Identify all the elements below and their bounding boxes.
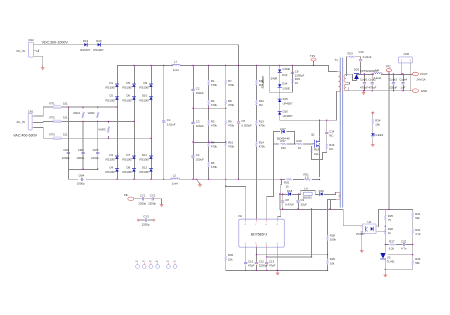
svg-text:240R: 240R bbox=[271, 76, 278, 80]
junction (238.5,179.3) bbox=[238, 179, 239, 180]
resistor R32 bbox=[412, 228, 421, 236]
junction (282.7,194) bbox=[282, 193, 283, 194]
fuse F3 bbox=[50, 133, 68, 140]
svg-text:L4: L4 bbox=[305, 187, 309, 191]
junction (277.8,270.4) bbox=[277, 270, 278, 271]
LED1 bbox=[371, 133, 383, 137]
svg-text:VDC:300-1000V: VDC:300-1000V bbox=[42, 41, 69, 45]
svg-text:PE: PE bbox=[124, 193, 128, 197]
resistor R33 bbox=[412, 257, 421, 266]
diode bridge leg 1 wire bbox=[117, 66, 119, 180]
junction (327.5,254.7) bbox=[327, 254, 328, 255]
ferrite bead L4 bbox=[301, 187, 316, 200]
junction (256.4,254.7) bbox=[256, 254, 257, 255]
junction (134,179.3) bbox=[133, 179, 134, 180]
shunt reg U3 TL431 bbox=[380, 253, 395, 264]
junction (108.4,121.4) bbox=[108, 121, 109, 122]
svg-text:10: 10 bbox=[298, 146, 302, 150]
transistor Q1 bbox=[311, 133, 320, 151]
resistor R18 bbox=[311, 148, 320, 156]
svg-text:22uF: 22uF bbox=[301, 202, 308, 206]
svg-text:D20: D20 bbox=[96, 39, 102, 43]
junction (326.7,120.2) bbox=[326, 120, 327, 121]
junction (412.7,254.7) bbox=[412, 254, 413, 255]
svg-text:RS1007: RS1007 bbox=[123, 158, 134, 162]
svg-text:C4: C4 bbox=[196, 153, 200, 157]
resistor R3 bbox=[208, 120, 218, 128]
svg-text:TP2: TP2 bbox=[386, 65, 392, 69]
wire HV bus bbox=[118, 66, 337, 72]
capacitor C4 bbox=[192, 153, 204, 161]
gate drive box with diode D17 bbox=[274, 127, 295, 144]
junction (385.3,269.3) bbox=[385, 269, 386, 270]
wire opto emitter to ground bbox=[361, 232, 364, 249]
junction (83.1,121.4) bbox=[82, 121, 83, 122]
resistor R31 bbox=[412, 212, 421, 220]
diode bridge leg 2 wire bbox=[134, 66, 136, 180]
svg-text:470k: 470k bbox=[228, 145, 235, 149]
wire analog ground rail bbox=[226, 269, 328, 271]
resistor R4 bbox=[208, 141, 218, 149]
junction (225.7,108.3) bbox=[225, 108, 226, 109]
node VOUT bbox=[412, 72, 427, 81]
svg-text:24V/1A: 24V/1A bbox=[417, 77, 426, 81]
wire clamp to drain bbox=[280, 92, 337, 153]
varistor VAR3 bbox=[98, 127, 110, 133]
junction (208.6,65.5) bbox=[208, 65, 209, 66]
svg-text:RS1007: RS1007 bbox=[140, 98, 151, 102]
svg-text:Cout3: Cout3 bbox=[389, 78, 397, 82]
svg-text:R16: R16 bbox=[297, 139, 303, 143]
wire CY row1 bbox=[134, 199, 162, 204]
svg-text:GND: GND bbox=[421, 89, 427, 93]
svg-text:C8: C8 bbox=[285, 198, 289, 202]
junction (372.2,90.7) bbox=[372, 90, 373, 91]
svg-text:RS1007: RS1007 bbox=[123, 86, 134, 90]
svg-text:1000p: 1000p bbox=[77, 182, 85, 186]
capacitor C32 bbox=[401, 240, 407, 251]
svg-text:1.5KE: 1.5KE bbox=[282, 67, 290, 71]
junction (292.5,65.5) bbox=[292, 65, 293, 66]
svg-text:RS1007: RS1007 bbox=[140, 86, 151, 90]
capacitor CY1 bbox=[138, 193, 146, 205]
svg-text:D10: D10 bbox=[142, 94, 148, 98]
svg-text:RS1007: RS1007 bbox=[106, 170, 117, 174]
T1 secondary winding 1 bbox=[344, 74, 348, 82]
svg-text:RS1007: RS1007 bbox=[80, 48, 91, 52]
svg-text:D6: D6 bbox=[127, 94, 131, 98]
junction (97.7,107.1) bbox=[97, 106, 98, 107]
svg-text:4.7n: 4.7n bbox=[401, 247, 407, 251]
svg-text:C9: C9 bbox=[301, 198, 305, 202]
junction (83.1,169) bbox=[82, 168, 83, 169]
junction (412.7,244.5) bbox=[412, 244, 413, 245]
resistor R9 bbox=[225, 120, 235, 128]
junction (151,138.3) bbox=[150, 138, 151, 139]
wire C5 column bbox=[238, 66, 240, 180]
resistor R27 bbox=[389, 240, 396, 251]
varistor VAR1 bbox=[73, 111, 85, 118]
diode D7 bbox=[123, 153, 136, 162]
svg-text:Q1: Q1 bbox=[311, 133, 315, 137]
svg-text:R23: R23 bbox=[348, 51, 354, 55]
svg-text:1000p: 1000p bbox=[77, 156, 85, 160]
svg-text:470uF: 470uF bbox=[360, 86, 368, 90]
junction (97.7,169) bbox=[97, 168, 98, 169]
junction (225.7,142) bbox=[225, 141, 226, 142]
junction (134,65.5) bbox=[133, 65, 134, 66]
svg-text:47pF: 47pF bbox=[248, 264, 255, 268]
svg-text:RS1007: RS1007 bbox=[140, 158, 151, 162]
diode D2 bbox=[106, 94, 119, 103]
svg-text:CY1: CY1 bbox=[140, 193, 146, 197]
junction (279.7,194) bbox=[279, 193, 280, 194]
svg-text:150: 150 bbox=[281, 146, 286, 150]
fuse F1 bbox=[50, 101, 68, 108]
junction (193,65.5) bbox=[192, 65, 193, 66]
diode D19b bbox=[319, 189, 325, 196]
junction (196,179.3) bbox=[195, 179, 196, 180]
junction (319.5,120.2) bbox=[319, 120, 320, 121]
junction (225.7,186) bbox=[225, 185, 226, 186]
svg-text:10: 10 bbox=[295, 81, 299, 85]
svg-text:62k: 62k bbox=[415, 216, 420, 220]
junction (363.6,90.7) bbox=[363, 90, 364, 91]
junction (385.3,226.3) bbox=[385, 226, 386, 227]
capacitor CM3 bbox=[91, 148, 99, 160]
connector CN6 bbox=[398, 52, 412, 90]
svg-text:VAC:400-690V: VAC:400-690V bbox=[13, 134, 37, 138]
svg-text:BD7682FJ: BD7682FJ bbox=[251, 233, 267, 237]
svg-text:D7: D7 bbox=[127, 153, 131, 157]
svg-text:C2: C2 bbox=[196, 86, 200, 90]
junction (266.7,256.9) bbox=[266, 256, 267, 257]
svg-text:6.2k: 6.2k bbox=[389, 247, 395, 251]
svg-text:RT3: RT3 bbox=[50, 133, 56, 137]
junction (134,121.4) bbox=[133, 121, 134, 122]
svg-text:10k: 10k bbox=[314, 152, 319, 156]
svg-text:5J1: 5J1 bbox=[63, 101, 68, 105]
inductor L3 bbox=[372, 68, 383, 80]
diode D6 bbox=[123, 94, 136, 103]
wire balance resistor column A bbox=[208, 66, 210, 180]
svg-text:470k: 470k bbox=[228, 124, 235, 128]
capacitor CM1 bbox=[62, 148, 70, 160]
svg-text:C5: C5 bbox=[242, 119, 246, 123]
capacitor C3 bbox=[192, 119, 204, 127]
resistor R5 bbox=[208, 161, 218, 169]
diode D15 bbox=[278, 97, 293, 105]
svg-text:1.5KE: 1.5KE bbox=[282, 87, 290, 91]
diode D3 bbox=[106, 153, 119, 162]
svg-text:1mH: 1mH bbox=[173, 68, 179, 72]
svg-text:R17: R17 bbox=[281, 139, 287, 143]
wire IC bottom pins bbox=[246, 200, 331, 271]
junction (83.1,107.1) bbox=[82, 106, 83, 107]
svg-text:Cout1: Cout1 bbox=[360, 78, 368, 82]
svg-text:100uF: 100uF bbox=[196, 91, 204, 95]
svg-text:470k: 470k bbox=[259, 145, 266, 149]
fuse F2 bbox=[50, 116, 68, 123]
svg-text:Snubber: Snubber bbox=[261, 75, 265, 89]
junction (364.4,74) bbox=[364, 73, 365, 74]
svg-text:C1: C1 bbox=[167, 118, 171, 122]
junction (277,270.4) bbox=[276, 270, 277, 271]
junction (163.7,65.5) bbox=[163, 65, 164, 66]
resistor R20 (CS) bbox=[284, 178, 292, 188]
node PE oval bbox=[124, 193, 134, 200]
svg-text:CN1: CN1 bbox=[28, 109, 34, 113]
svg-text:D18: D18 bbox=[287, 189, 293, 193]
wire aux VCC row bbox=[280, 192, 344, 209]
capacitor C5 bbox=[237, 119, 252, 127]
svg-text:10k: 10k bbox=[375, 123, 380, 127]
capacitor CM2 bbox=[77, 148, 85, 160]
junction (372.2,74) bbox=[372, 73, 373, 74]
svg-text:0.01uF: 0.01uF bbox=[167, 122, 176, 126]
diode D9 bbox=[140, 81, 153, 90]
svg-text:NC: NC bbox=[329, 134, 333, 138]
diode D11 bbox=[140, 153, 153, 162]
svg-text:1.0: 1.0 bbox=[305, 176, 309, 180]
resistor R10 bbox=[225, 141, 235, 149]
resistor R13 bbox=[256, 120, 266, 128]
svg-text:470k: 470k bbox=[211, 83, 218, 87]
capacitor CY2 bbox=[148, 193, 156, 205]
junction (117,107.1) bbox=[116, 106, 117, 107]
svg-text:470k: 470k bbox=[211, 124, 218, 128]
junction (193,142) bbox=[192, 141, 193, 142]
junction (163.7,179.3) bbox=[163, 179, 164, 180]
svg-text:AC_IN: AC_IN bbox=[17, 120, 25, 124]
svg-text:4.7k: 4.7k bbox=[415, 232, 421, 236]
svg-text:VOUT: VOUT bbox=[420, 72, 428, 76]
resistor R16 bbox=[296, 139, 302, 150]
junction (108.4,138.3) bbox=[108, 138, 109, 139]
connector CN2 bbox=[17, 38, 39, 57]
svg-text:RS1007: RS1007 bbox=[106, 98, 117, 102]
svg-text:TP1: TP1 bbox=[310, 54, 316, 58]
resistor R25 bbox=[384, 214, 393, 222]
junction (393.5,90.7) bbox=[393, 90, 394, 91]
svg-text:D19: D19 bbox=[83, 39, 89, 43]
capacitor C1 bbox=[162, 118, 175, 126]
T1 primary winding bbox=[337, 72, 341, 92]
TVS D13 bbox=[271, 67, 290, 80]
svg-text:CY3: CY3 bbox=[143, 215, 149, 219]
svg-text:RS1007: RS1007 bbox=[106, 86, 117, 90]
diode D20s output rectifier bbox=[348, 67, 379, 80]
svg-text:2200p: 2200p bbox=[138, 201, 146, 205]
svg-text:R27: R27 bbox=[389, 240, 395, 244]
test point TP1 bbox=[310, 54, 316, 66]
wire varistor/CM cap columns bbox=[68, 107, 108, 179]
resistor R24 bbox=[372, 119, 381, 127]
svg-text:C16: C16 bbox=[359, 50, 365, 54]
svg-text:CM1: CM1 bbox=[63, 148, 69, 152]
svg-text:UF4007: UF4007 bbox=[283, 114, 293, 118]
svg-text:100k: 100k bbox=[330, 238, 337, 242]
svg-text:CN6: CN6 bbox=[404, 52, 410, 56]
capacitor C14 NC bbox=[325, 130, 334, 138]
svg-text:0.22uF: 0.22uF bbox=[363, 55, 372, 59]
TVS D14 bbox=[278, 81, 290, 90]
junction (313.5,65.5) bbox=[313, 65, 314, 66]
diode D8 bbox=[123, 165, 136, 174]
test point TP2 bbox=[386, 65, 392, 75]
svg-text:0.47uF: 0.47uF bbox=[285, 202, 294, 206]
junction (245.7,270.4) bbox=[245, 270, 246, 271]
resistor R26 bbox=[384, 227, 393, 235]
svg-text:100uF: 100uF bbox=[196, 157, 204, 161]
junction (327.5,270.4) bbox=[327, 270, 328, 271]
resistor R21 (CS) bbox=[304, 172, 311, 180]
svg-text:CY2: CY2 bbox=[150, 193, 156, 197]
svg-text:D9: D9 bbox=[144, 81, 148, 85]
resistor R30 bbox=[225, 253, 234, 261]
diode D20 bbox=[94, 39, 105, 52]
junction (208.6,179.3) bbox=[208, 179, 209, 180]
junction (311.5,209) bbox=[311, 208, 312, 209]
wire CS branch bbox=[278, 180, 285, 220]
junction (266.7,270.4) bbox=[266, 270, 267, 271]
T1 aux winding bbox=[335, 192, 340, 199]
svg-text:D17: D17 bbox=[281, 127, 287, 131]
wire VH divider column bbox=[255, 66, 257, 220]
junction (364.4,90.7) bbox=[364, 90, 365, 91]
svg-text:CM4: CM4 bbox=[78, 174, 84, 178]
capacitor C10 bbox=[244, 260, 254, 268]
svg-text:UF4007: UF4007 bbox=[283, 101, 293, 105]
capacitor C2 bbox=[192, 86, 204, 94]
svg-text:D3: D3 bbox=[110, 153, 114, 157]
svg-text:RT1: RT1 bbox=[50, 101, 56, 105]
junction (238.5,65.5) bbox=[238, 65, 239, 66]
svg-text:D8: D8 bbox=[127, 165, 131, 169]
svg-text:VH: VH bbox=[238, 214, 242, 218]
svg-text:D20: D20 bbox=[354, 67, 360, 71]
svg-text:D19: D19 bbox=[319, 189, 325, 193]
svg-text:L1: L1 bbox=[174, 60, 178, 64]
svg-text:U2: U2 bbox=[368, 220, 372, 224]
svg-text:RS1007: RS1007 bbox=[123, 98, 134, 102]
diode D16 bbox=[278, 110, 293, 118]
wire secondary links bbox=[348, 82, 356, 90]
svg-text:D14: D14 bbox=[282, 81, 288, 85]
junction (97.7,121.4) bbox=[97, 121, 98, 122]
resistor R11 bbox=[256, 79, 265, 87]
junction (117,179.3) bbox=[116, 179, 117, 180]
junction (319.5,143.9) bbox=[319, 143, 320, 144]
capacitor C8 bbox=[281, 198, 294, 206]
diode D1 bbox=[106, 81, 119, 90]
svg-text:D4: D4 bbox=[110, 165, 114, 169]
wire GND rail bbox=[357, 90, 413, 92]
earth PE tap bbox=[197, 179, 202, 186]
ground (LED) bbox=[371, 143, 374, 146]
capacitor Cout4 bbox=[400, 75, 408, 91]
junction (403,90.7) bbox=[402, 90, 403, 91]
svg-text:2200p: 2200p bbox=[148, 201, 156, 205]
junction (225.7,179.3) bbox=[225, 179, 226, 180]
wire phase A bbox=[48, 106, 118, 108]
svg-text:RS1007: RS1007 bbox=[106, 158, 117, 162]
junction (279.7,65.5) bbox=[279, 65, 280, 66]
clamp box bbox=[269, 66, 292, 121]
svg-text:470uF: 470uF bbox=[368, 86, 376, 90]
junction (403,74) bbox=[402, 73, 403, 74]
svg-text:2200pF: 2200pF bbox=[259, 264, 269, 268]
svg-text:470k: 470k bbox=[211, 103, 218, 107]
junction (385.3,244.5) bbox=[385, 244, 386, 245]
junction (298.7,194) bbox=[298, 193, 299, 194]
svg-text:D2: D2 bbox=[110, 94, 114, 98]
junction (311.5,256.9) bbox=[311, 256, 312, 257]
junction (208.6,142) bbox=[208, 141, 209, 142]
svg-text:VAR1: VAR1 bbox=[73, 111, 81, 115]
wire VOUT rail bbox=[357, 74, 413, 76]
wire bulk cap column bbox=[194, 66, 226, 180]
svg-text:Cout4: Cout4 bbox=[400, 78, 408, 82]
resistor R15 bbox=[292, 77, 301, 85]
svg-text:D1: D1 bbox=[110, 81, 114, 85]
resistor R28 ZCD bbox=[327, 234, 337, 242]
junction (282.7,209) bbox=[282, 208, 283, 209]
svg-text:100uF: 100uF bbox=[196, 124, 204, 128]
svg-text:5J1: 5J1 bbox=[63, 116, 68, 120]
ground (opto) bbox=[360, 249, 363, 252]
junction (330,209) bbox=[329, 208, 330, 209]
svg-text:C3: C3 bbox=[196, 119, 200, 123]
ground (IC) bbox=[276, 271, 279, 274]
LED indicator chain bbox=[371, 111, 374, 142]
svg-text:RS1007: RS1007 bbox=[94, 48, 105, 52]
svg-text:CN2: CN2 bbox=[28, 38, 34, 42]
capacitor Cout1 bbox=[360, 75, 368, 91]
svg-text:VAR2: VAR2 bbox=[88, 111, 96, 115]
wire DC+ top bbox=[35, 45, 238, 67]
output rectifier snubber R23 C16 bbox=[347, 50, 372, 75]
diode D4 bbox=[106, 165, 119, 174]
wire FB block frame bbox=[379, 210, 413, 270]
wire C1 column bbox=[163, 66, 165, 180]
resistor R19 NC bbox=[326, 143, 335, 151]
diode D19 bbox=[80, 39, 91, 52]
svg-text:0.033uF: 0.033uF bbox=[242, 123, 253, 127]
junction (193,179.3) bbox=[192, 179, 193, 180]
diode D18 bbox=[287, 189, 293, 196]
diode bridge leg 3 wire bbox=[151, 66, 153, 180]
svg-text:RS1007: RS1007 bbox=[140, 170, 151, 174]
optocoupler U2 PC817 bbox=[356, 220, 378, 236]
svg-text:LED1: LED1 bbox=[376, 133, 383, 137]
svg-text:470k: 470k bbox=[211, 145, 218, 149]
junction (281,179.5) bbox=[280, 179, 281, 180]
wire opto feed bbox=[343, 210, 362, 226]
op-amp U1 BD7682FJ bbox=[238, 214, 284, 247]
capacitor Cout2 bbox=[368, 75, 376, 91]
junction (225.7,65.5) bbox=[225, 65, 226, 66]
svg-text:1000p: 1000p bbox=[91, 156, 99, 160]
capacitor Cout3 bbox=[389, 75, 397, 91]
ground (secondary) bbox=[362, 91, 365, 94]
ground (TL431) bbox=[384, 269, 387, 277]
svg-text:1mH: 1mH bbox=[172, 182, 178, 186]
svg-text:PC817: PC817 bbox=[356, 232, 365, 236]
resistor R1 bbox=[208, 79, 218, 87]
svg-text:RS1007: RS1007 bbox=[123, 170, 134, 174]
svg-text:L3: L3 bbox=[375, 68, 379, 72]
